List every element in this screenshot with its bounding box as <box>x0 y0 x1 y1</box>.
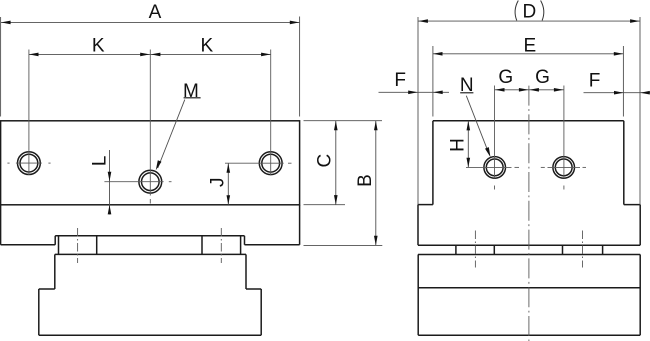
dimension G left <box>495 67 529 91</box>
svg-text:M: M <box>183 81 199 102</box>
dimension B <box>304 121 383 246</box>
dimension L <box>90 150 112 215</box>
dimension G right <box>529 67 564 91</box>
svg-text:G: G <box>498 67 513 88</box>
svg-text:B: B <box>355 174 376 187</box>
svg-text:L: L <box>90 156 111 167</box>
hole vertical centerlines / G extension lines (side view) <box>495 86 564 190</box>
dimension K left <box>29 36 150 57</box>
svg-text:K: K <box>92 36 105 57</box>
dimension K right <box>150 36 270 57</box>
svg-text:A: A <box>149 2 162 23</box>
svg-text:G: G <box>535 67 550 88</box>
svg-text:F: F <box>589 70 601 91</box>
dimension D with parentheses <box>418 1 640 205</box>
plate side edges extended down to slide top surface <box>1 205 300 245</box>
rail bolt centerline left (side view) <box>474 231 476 268</box>
svg-text:C: C <box>315 154 336 168</box>
dimension E <box>433 35 624 116</box>
rail bolt centerline left <box>77 228 79 263</box>
hole right (front view) <box>259 152 282 175</box>
base block (front view) <box>39 289 261 335</box>
dimension F right <box>584 70 650 94</box>
svg-text:E: E <box>523 35 536 56</box>
svg-text:J: J <box>208 177 229 187</box>
dimension C <box>304 121 383 205</box>
right hole horizontal centerline (merges with J extension) <box>225 162 292 164</box>
svg-text:K: K <box>200 36 213 57</box>
slide body sides (front view) <box>39 254 261 289</box>
slide rail strip (front view) <box>55 236 246 255</box>
hole left (side view) <box>484 157 506 179</box>
base block (side view) <box>418 255 640 336</box>
dimension A <box>1 2 300 117</box>
svg-text:H: H <box>448 138 469 152</box>
jaw plate outline (front view) <box>1 121 300 205</box>
rail strip (side view) <box>418 245 640 254</box>
left hole horizontal centerline <box>7 162 50 164</box>
svg-text:F: F <box>394 70 406 91</box>
dimension H <box>448 121 471 168</box>
hole vertical centerlines / K extension lines <box>29 50 271 204</box>
dimension J <box>208 163 231 205</box>
label M with leader to middle hole <box>156 81 201 170</box>
hole middle (front view) <box>139 170 162 193</box>
rail bolt centerline right <box>220 228 222 263</box>
hole right (side view) <box>553 157 575 179</box>
hole left (front view) <box>18 152 41 175</box>
central vertical centerline (side view) <box>528 86 530 341</box>
rail bolt centerline right (side view) <box>582 231 584 268</box>
left hole horizontal centerline (merges with H extension, side view) <box>466 166 519 168</box>
svg-text:D: D <box>523 2 537 23</box>
label N with leader to left hole (side view) <box>460 75 491 157</box>
middle hole horizontal centerline (merges with L extension) <box>104 181 171 183</box>
right hole horizontal centerline (side view) <box>541 166 586 168</box>
body outline (side view) <box>418 121 640 245</box>
dimension F left <box>379 70 450 94</box>
